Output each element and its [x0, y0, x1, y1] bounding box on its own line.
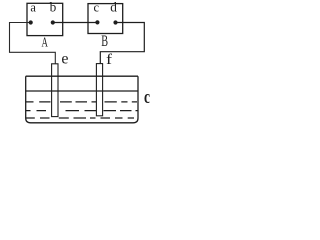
svg-text:c: c [144, 87, 150, 108]
liquid surface line [26, 90, 138, 92]
electrolyte tank c (vessel with rounded bottom corners) [26, 76, 138, 123]
svg-text:A: A [42, 35, 49, 50]
wire b to c [53, 22, 98, 24]
electrode plate f [96, 64, 102, 116]
svg-text:b: b [50, 0, 57, 15]
svg-text:e: e [61, 50, 68, 67]
svg-text:f: f [106, 52, 112, 68]
svg-text:B: B [101, 33, 108, 50]
svg-text:a: a [30, 0, 36, 14]
terminal dot b [51, 20, 55, 24]
liquid dash row 2 [26, 110, 138, 112]
wire from d to electrode f [100, 23, 144, 64]
box A (component A) [27, 3, 63, 35]
terminal dot d [113, 20, 117, 24]
wire from a to electrode e [10, 23, 56, 64]
electrode plate e [52, 64, 58, 117]
tank top rim line [26, 75, 138, 77]
box B (component B) [88, 4, 123, 34]
svg-text:c: c [94, 0, 100, 14]
terminal dot c [95, 20, 99, 24]
terminal dot a [29, 20, 33, 24]
liquid dash row 3 [26, 117, 134, 119]
liquid dash row 1 [26, 101, 137, 103]
svg-text:d: d [110, 0, 117, 15]
